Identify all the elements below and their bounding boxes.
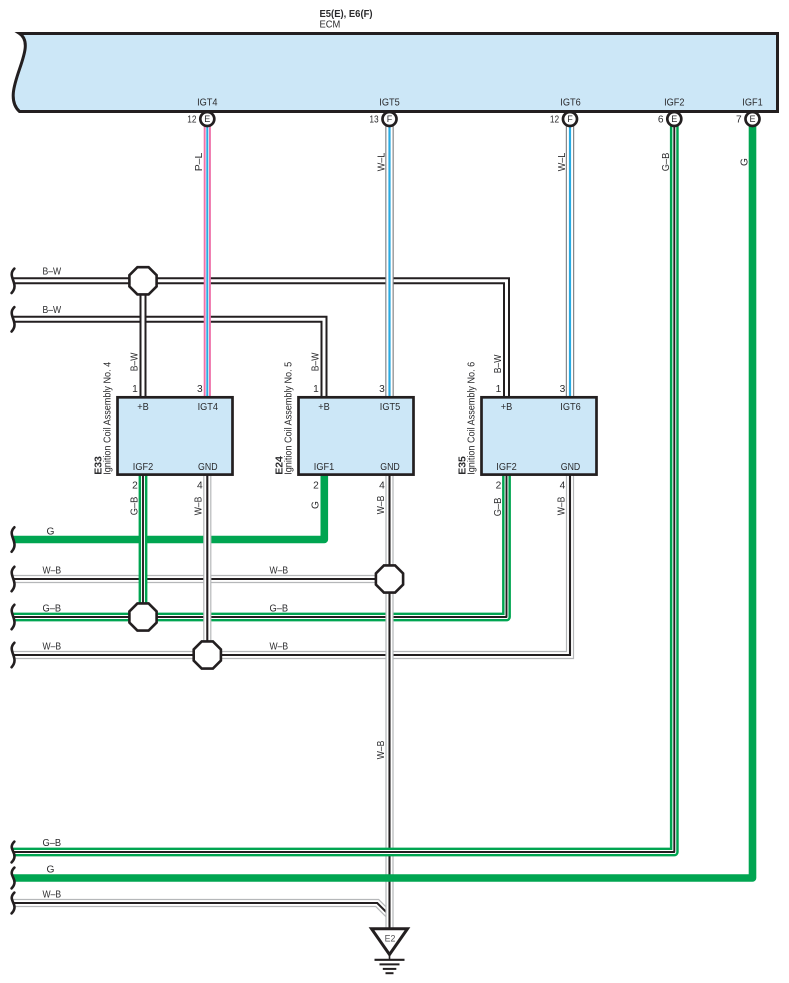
- svg-text:G: G: [47, 864, 55, 875]
- svg-text:G–B: G–B: [43, 604, 62, 615]
- svg-text:G–B: G–B: [43, 838, 62, 849]
- svg-text:2: 2: [313, 481, 319, 492]
- svg-text:E: E: [204, 114, 210, 124]
- svg-text:G–B: G–B: [661, 153, 672, 172]
- svg-text:B–W: B–W: [43, 305, 62, 316]
- svg-text:GND: GND: [380, 462, 400, 473]
- svg-text:E: E: [671, 114, 677, 124]
- svg-text:2: 2: [496, 481, 502, 492]
- svg-text:W–L: W–L: [557, 152, 568, 171]
- svg-text:+B: +B: [137, 402, 149, 413]
- svg-text:W–B: W–B: [194, 497, 205, 516]
- svg-text:Ignition Coil Assembly No. 5: Ignition Coil Assembly No. 5: [283, 361, 294, 474]
- svg-text:IGT4: IGT4: [197, 98, 218, 109]
- svg-text:IGF1: IGF1: [314, 462, 335, 473]
- svg-text:W–B: W–B: [43, 642, 62, 653]
- svg-text:P–L: P–L: [194, 152, 205, 171]
- svg-text:G: G: [47, 527, 55, 538]
- svg-text:F: F: [387, 114, 393, 124]
- svg-text:IGT6: IGT6: [560, 98, 581, 109]
- svg-text:1: 1: [132, 384, 138, 395]
- svg-text:E: E: [749, 114, 755, 124]
- svg-text:13: 13: [369, 115, 379, 126]
- svg-text:B–W: B–W: [129, 352, 140, 371]
- svg-text:4: 4: [379, 481, 385, 492]
- svg-text:G–B: G–B: [270, 604, 289, 615]
- svg-text:12: 12: [187, 115, 197, 126]
- svg-text:W–B: W–B: [270, 565, 289, 576]
- svg-text:G–B: G–B: [129, 497, 140, 516]
- svg-text:W–B: W–B: [376, 741, 387, 760]
- svg-text:IGT6: IGT6: [560, 402, 581, 413]
- svg-text:IGT5: IGT5: [379, 98, 400, 109]
- svg-text:E2: E2: [385, 933, 396, 943]
- svg-text:IGT5: IGT5: [380, 402, 401, 413]
- svg-text:3: 3: [197, 384, 203, 395]
- svg-text:2: 2: [132, 481, 138, 492]
- svg-text:GND: GND: [198, 462, 218, 473]
- svg-text:3: 3: [560, 384, 566, 395]
- svg-text:G: G: [311, 501, 322, 509]
- svg-text:12: 12: [550, 115, 560, 126]
- svg-text:+B: +B: [501, 402, 513, 413]
- svg-text:IGF2: IGF2: [496, 462, 517, 473]
- svg-text:B–W: B–W: [43, 266, 62, 277]
- svg-text:W–L: W–L: [376, 152, 387, 171]
- svg-text:7: 7: [736, 115, 742, 126]
- svg-text:F: F: [567, 114, 573, 124]
- svg-text:4: 4: [197, 481, 203, 492]
- svg-text:W–B: W–B: [556, 497, 567, 516]
- svg-text:+B: +B: [318, 402, 330, 413]
- svg-text:ECM: ECM: [320, 20, 341, 31]
- svg-text:1: 1: [496, 384, 502, 395]
- svg-text:W–B: W–B: [43, 890, 62, 901]
- svg-text:4: 4: [560, 481, 566, 492]
- svg-text:IGF1: IGF1: [742, 98, 763, 109]
- svg-text:B–W: B–W: [310, 352, 321, 371]
- svg-text:IGT4: IGT4: [198, 402, 219, 413]
- svg-text:W–B: W–B: [376, 496, 387, 515]
- svg-text:Ignition Coil Assembly No. 4: Ignition Coil Assembly No. 4: [102, 361, 113, 474]
- svg-text:IGF2: IGF2: [133, 462, 154, 473]
- svg-text:W–B: W–B: [270, 642, 289, 653]
- svg-text:E5(E), E6(F): E5(E), E6(F): [320, 9, 373, 20]
- svg-text:B–W: B–W: [493, 354, 504, 373]
- svg-text:1: 1: [313, 384, 319, 395]
- svg-text:6: 6: [658, 115, 664, 126]
- svg-text:Ignition Coil Assembly No. 6: Ignition Coil Assembly No. 6: [466, 361, 477, 474]
- svg-text:W–B: W–B: [43, 565, 62, 576]
- svg-text:GND: GND: [561, 462, 581, 473]
- svg-text:G–B: G–B: [493, 498, 504, 517]
- svg-text:G: G: [739, 158, 750, 166]
- svg-text:IGF2: IGF2: [664, 98, 685, 109]
- svg-text:3: 3: [379, 384, 385, 395]
